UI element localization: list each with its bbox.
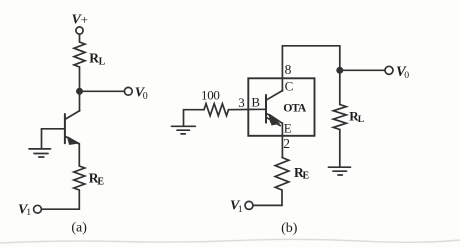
wire pin 8 (281, 46, 283, 91)
transistor Q2 base bar (265, 95, 267, 123)
wire RE to V1 terminal (41, 190, 79, 209)
svg-text:8: 8 (285, 62, 292, 77)
resistor RE (a) (74, 166, 85, 190)
terminal V1 (a) (34, 205, 42, 213)
resistor RL (a) (74, 42, 85, 67)
label V0 (b) (396, 64, 409, 81)
label OTA (283, 100, 307, 114)
wire node to RL (b) (339, 70, 341, 104)
svg-text:E: E (97, 176, 104, 187)
label RL (b) (349, 109, 364, 126)
svg-text:0: 0 (404, 70, 409, 81)
wire V+ to RL (79, 34, 81, 42)
svg-text:C: C (285, 78, 294, 93)
pin E label (284, 121, 292, 136)
label V+ (72, 12, 89, 27)
label (a) (71, 221, 87, 236)
transistor Q2 emitter with arrow (266, 113, 282, 125)
wire ground to 100 resistor (b) (184, 110, 205, 126)
svg-text:2: 2 (283, 136, 290, 151)
terminal V0 (a) (124, 87, 132, 95)
svg-text:OTA: OTA (283, 100, 307, 114)
wire node to V0 terminal (80, 90, 125, 92)
svg-text:3: 3 (238, 95, 245, 110)
transistor Q1 emitter with arrow (65, 136, 79, 144)
resistor 100 (204, 104, 229, 116)
transistor Q1 base bar (64, 114, 66, 143)
ground (b right) (329, 167, 351, 175)
pin B label (251, 95, 260, 110)
svg-text:L: L (99, 57, 106, 68)
scan artifact line (0, 239, 460, 243)
svg-text:(a): (a) (71, 221, 87, 236)
label V1 (a) (18, 202, 31, 218)
label RL (a) (89, 51, 105, 68)
wire node to V0 terminal (b) (340, 69, 385, 71)
wire RL to node (79, 67, 81, 95)
resistor RE (b) (275, 158, 289, 191)
pin 3 label (238, 95, 245, 110)
svg-text:E: E (303, 170, 310, 181)
label V0 (a) (135, 86, 148, 103)
label 100 (201, 87, 220, 102)
wire pin8 top to node (b) (282, 46, 339, 70)
label RE (b) (294, 165, 310, 181)
svg-text:1: 1 (26, 207, 31, 218)
node junction (b) (336, 67, 343, 74)
wire RE to V1 terminal (b) (253, 190, 282, 205)
wire RL to ground (b) (339, 130, 341, 168)
resistor RL (b) (333, 105, 346, 130)
svg-text:1: 1 (238, 204, 243, 215)
svg-text:L: L (358, 115, 364, 125)
label V1 (b) (230, 199, 243, 215)
pin C label (285, 78, 294, 93)
op-amp box OTA U1 (248, 78, 314, 136)
node junction (a) (76, 88, 83, 95)
svg-text:+: + (81, 12, 88, 27)
ground (b left) (172, 126, 196, 134)
wire 100 to pin 3 and base (229, 108, 266, 110)
svg-text:(b): (b) (281, 221, 298, 236)
label (b) (281, 221, 298, 236)
terminal V1 (b) (245, 201, 253, 209)
svg-text:100: 100 (201, 87, 220, 102)
terminal V0 (b) (385, 66, 393, 74)
label RE (a) (89, 170, 105, 187)
ground (a) (29, 149, 51, 157)
pin 8 label (285, 62, 292, 77)
wire emitter to RE (78, 144, 80, 167)
svg-text:B: B (251, 95, 260, 110)
svg-text:0: 0 (143, 91, 148, 102)
terminal V+ (76, 27, 83, 34)
wire base to ground (42, 129, 65, 149)
svg-text:E: E (284, 121, 292, 136)
transistor Q2 collector (266, 91, 283, 101)
pin 2 label (283, 136, 290, 151)
wire node to collector (79, 94, 81, 111)
transistor Q1 collector (66, 111, 80, 119)
wire pin 2 (281, 123, 283, 158)
